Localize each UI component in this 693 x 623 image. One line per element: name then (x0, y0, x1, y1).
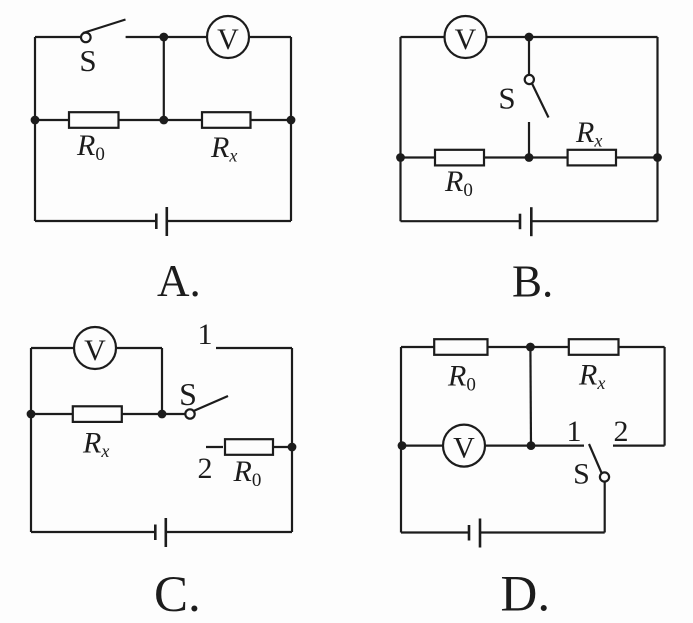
svg-text:R0: R0 (444, 165, 473, 201)
wire B top-left horizontal (401, 36, 445, 38)
svg-text:B.: B. (512, 257, 553, 307)
node C left (middle row) (27, 410, 36, 419)
resistor R0 (circuit D) (434, 339, 487, 355)
svg-text:Rx: Rx (210, 131, 237, 166)
wire C Rx to middle node (122, 413, 162, 415)
wire D bottom-right (480, 531, 605, 533)
svg-text:1: 1 (198, 318, 213, 351)
node B middle (525, 153, 534, 162)
node B right (653, 153, 662, 162)
wire D middle node to contact 1 (531, 445, 584, 447)
wire B left vertical (399, 37, 401, 221)
wire B junction down to switch (528, 37, 530, 75)
resistor Rx (circuit B) (568, 150, 616, 166)
svg-text:R0: R0 (447, 359, 476, 395)
switch S (circuit B, open) (525, 75, 549, 158)
svg-text:2: 2 (614, 415, 629, 448)
wire C middle node to switch (162, 413, 185, 415)
wire D Rx to top-right corner (619, 346, 665, 348)
svg-text:A.: A. (157, 256, 201, 306)
svg-text:S: S (498, 81, 515, 116)
wire A top-left horizontal (35, 36, 81, 38)
voltmeter V (circuit D) (443, 425, 485, 467)
node C middle (158, 410, 167, 419)
voltmeter V (circuit B) (445, 16, 487, 58)
wire C voltmeter to loop corner (116, 347, 162, 349)
svg-text:1: 1 (567, 415, 582, 448)
wire C left vertical (30, 348, 32, 532)
wire D right vertical (663, 347, 665, 446)
switch S (circuit A, open) (81, 20, 126, 43)
wire A R0 to middle node (119, 119, 164, 121)
wire A Rx to right node (251, 119, 292, 121)
wire B R0 to middle node (484, 156, 529, 158)
node D top junction (526, 343, 535, 352)
node A middle (middle row) (159, 116, 168, 125)
node A left (middle row) (31, 116, 40, 125)
resistor R0 (circuit A) (69, 112, 119, 128)
wire A left node to R0 (35, 119, 69, 121)
wire D junction to Rx (530, 346, 568, 348)
wire B Rx to right node (616, 156, 658, 158)
voltmeter V (circuit C) (74, 327, 116, 369)
wire A bottom-left (35, 220, 156, 222)
wire C contact 2 stub (206, 446, 223, 448)
wire C voltmeter loop right vertical (161, 348, 163, 414)
node D middle (527, 441, 536, 450)
wire D top-left horizontal (401, 346, 434, 348)
wire C contact 1 horizontal (216, 347, 292, 349)
wire D middle vertical (junction down to node) (529, 347, 532, 446)
battery (circuit C) (155, 518, 166, 547)
wire D contact 2 horizontal (613, 445, 665, 447)
node A top junction (159, 33, 168, 42)
svg-text:V: V (453, 432, 475, 465)
svg-text:S: S (79, 43, 96, 78)
resistor R0 (circuit B) (435, 150, 484, 166)
resistor Rx (circuit A) (202, 112, 251, 128)
wire B left node to R0 (401, 156, 436, 158)
wire A right vertical (290, 37, 292, 221)
svg-text:R0: R0 (233, 455, 262, 491)
wire C R0 to right node (273, 446, 292, 448)
battery (circuit D) (469, 519, 480, 548)
wire D R0 to top junction (488, 346, 531, 348)
wire B voltmeter to top-right corner (487, 36, 658, 38)
wire B middle node to Rx (529, 156, 568, 158)
wire C right vertical (291, 348, 293, 532)
battery (circuit B) (520, 207, 531, 236)
node B top junction (525, 33, 534, 42)
wire C bottom-right (166, 531, 292, 533)
svg-text:D.: D. (501, 567, 551, 623)
wire D left node to voltmeter (401, 445, 443, 447)
svg-text:R0: R0 (76, 129, 105, 165)
wire C bottom-left (31, 531, 155, 533)
wire D bottom-left (401, 531, 469, 533)
svg-text:Rx: Rx (82, 427, 109, 462)
wire B right vertical (656, 37, 658, 221)
svg-text:2: 2 (198, 452, 213, 485)
wire C top-left horizontal (31, 347, 74, 349)
svg-text:Rx: Rx (578, 359, 605, 394)
svg-text:V: V (217, 23, 239, 56)
switch S (circuit C, open) (185, 396, 228, 419)
wire C left node to Rx (31, 413, 73, 415)
wire A middle vertical (junction to middle node) (163, 37, 165, 120)
resistor Rx (circuit D) (569, 339, 619, 355)
wire B bottom-right (531, 220, 657, 222)
resistor Rx (circuit C) (73, 406, 122, 422)
node B left (middle row) (396, 153, 405, 162)
node D left (middle row) (398, 441, 407, 450)
wire A voltmeter to top-right corner (249, 36, 291, 38)
voltmeter V (circuit A) (207, 16, 249, 58)
svg-text:S: S (179, 376, 197, 412)
svg-text:C.: C. (154, 567, 201, 623)
wire A junction to voltmeter (164, 36, 207, 38)
wire D left vertical (400, 347, 402, 533)
switch S (circuit D, open) (589, 444, 609, 533)
wire A middle node to Rx (164, 119, 202, 121)
svg-text:S: S (573, 458, 590, 491)
battery (circuit A) (156, 207, 167, 236)
wire B bottom-left (401, 220, 521, 222)
resistor R0 (circuit C) (225, 439, 273, 455)
node A right (middle row) (287, 116, 296, 125)
wire D voltmeter to middle node (485, 445, 531, 447)
wire A top-right of switch (126, 36, 164, 38)
svg-text:V: V (455, 23, 477, 56)
node C right (288, 443, 297, 452)
wire A left vertical (34, 37, 36, 221)
svg-text:Rx: Rx (575, 116, 602, 151)
svg-text:V: V (84, 334, 106, 367)
wire A bottom-right (167, 220, 291, 222)
